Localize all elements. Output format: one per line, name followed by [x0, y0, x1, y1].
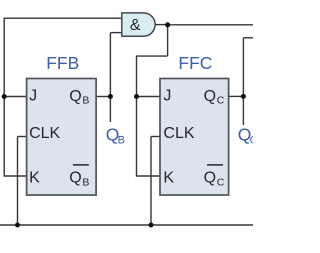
wire: QB output of FFB	[96, 96, 110, 98]
node: FFB clock to clock-line junction	[15, 223, 20, 228]
FFC QC-bar overline	[207, 164, 223, 166]
wire: top horizontal from rail to AND gate input 1	[4, 17, 123, 19]
svg-text:B: B	[82, 176, 89, 188]
svg-text:J: J	[163, 88, 171, 105]
wire: J input of FFC	[137, 96, 161, 98]
svg-text:FFC: FFC	[178, 53, 212, 73]
svg-text:J: J	[29, 88, 37, 105]
wire: vertical feed to J and K of FFC	[136, 55, 138, 176]
wire: FFC clock vertical drop	[150, 137, 152, 226]
wire: K input of FFC	[136, 175, 160, 177]
wire: step horizontal to x=136.5	[137, 55, 168, 57]
svg-text:B: B	[82, 95, 89, 107]
svg-text:C: C	[250, 134, 253, 146]
wire: K input of FFB	[4, 175, 27, 177]
wire: AND gate input 2 horizontal	[110, 32, 122, 34]
wire: QC output of FFC	[229, 95, 244, 97]
flip-flop FFC box	[160, 79, 229, 196]
svg-text:C: C	[217, 95, 225, 107]
svg-text:Q: Q	[204, 170, 216, 187]
wire: AND output vertical drop	[167, 25, 169, 56]
svg-text:Q: Q	[69, 170, 81, 187]
wire: left vertical rail (QA net)	[3, 18, 5, 177]
flip-flop FFB box	[27, 79, 97, 196]
AND gate U1 body	[122, 13, 155, 36]
svg-text:K: K	[163, 170, 174, 187]
wire: bottom clock line	[0, 224, 253, 226]
node: J of FFC junction	[134, 94, 139, 99]
svg-text:FFB: FFB	[46, 53, 79, 73]
node: AND output junction	[165, 22, 170, 27]
svg-text:C: C	[217, 176, 225, 188]
svg-text:B: B	[118, 134, 125, 146]
svg-text:CLK: CLK	[163, 125, 194, 142]
svg-text:&: &	[130, 17, 141, 34]
wire: CLK input stub of FFB	[18, 136, 27, 138]
wire: CLK input stub of FFC	[151, 136, 160, 138]
svg-text:Q: Q	[69, 88, 81, 105]
node: rail to J of FFB junction	[2, 94, 7, 99]
wire: QB vertical (to AND input 2 and label stub)	[109, 33, 111, 122]
FFB QB-bar overline	[73, 164, 89, 166]
wire: QC vertical (to top-right corner and label stub)	[242, 38, 244, 125]
node: FFC clock to clock-line junction	[149, 223, 154, 228]
wire: AND output to right edge	[168, 24, 253, 26]
node: QC output junction	[241, 94, 246, 99]
wire: FFB clock vertical drop	[17, 137, 19, 226]
svg-text:CLK: CLK	[29, 125, 60, 142]
svg-text:K: K	[29, 170, 40, 187]
svg-text:Q: Q	[204, 88, 216, 105]
wire: top-right horizontal to edge	[243, 37, 253, 39]
node: QB output junction	[108, 94, 113, 99]
wire: AND gate output	[155, 24, 168, 26]
wire: J input of FFB	[4, 96, 26, 98]
